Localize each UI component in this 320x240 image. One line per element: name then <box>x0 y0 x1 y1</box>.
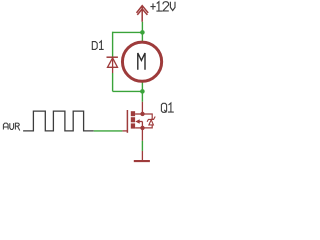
wire AVR to gate <box>94 130 123 132</box>
wire motor bottom to junction <box>141 82 143 91</box>
label AVR <box>3 123 19 130</box>
wire junction to Q1 drain <box>141 91 143 101</box>
mosfet Q1 source horizontal <box>135 127 142 129</box>
wire horizontal to bottom junction <box>113 90 143 92</box>
label Q1 <box>161 103 173 113</box>
mosfet Q1 body diode triangle <box>149 120 154 125</box>
motor letter M <box>138 53 145 70</box>
mosfet Q1 internal dot source <box>140 126 144 130</box>
wire junction to motor top <box>141 32 143 43</box>
wire source to ground <box>141 141 143 151</box>
junction dot top <box>140 30 145 35</box>
mosfet Q1 gate lead <box>122 130 128 132</box>
ground bar <box>134 160 150 162</box>
junction dot bottom <box>140 89 145 94</box>
mosfet Q1 body diode top lead <box>142 114 152 119</box>
diode D1 triangle <box>108 58 118 67</box>
label D1 <box>92 41 103 50</box>
mosfet Q1 channel segment top <box>131 111 135 116</box>
wire D1 anode down <box>112 73 114 91</box>
supply symbol +12V arrow <box>137 6 149 22</box>
wire horizontal to diode branch <box>113 31 143 33</box>
mosfet Q1 channel segment middle <box>131 117 135 122</box>
wire down to D1 cathode <box>112 32 114 57</box>
ground pin <box>141 151 143 160</box>
mosfet Q1 drain pin <box>141 102 143 114</box>
mosfet Q1 body diode zener bar <box>147 117 155 122</box>
mosfet Q1 channel segment bottom <box>131 123 135 128</box>
motor M1 circle <box>122 42 161 81</box>
mosfet Q1 body diode bottom lead <box>142 125 152 128</box>
waveform PWM <box>23 111 94 131</box>
mosfet Q1 bulk arrow <box>135 119 139 124</box>
mosfet Q1 internal dot drain <box>140 112 144 116</box>
mosfet Q1 source vertical <box>141 122 143 141</box>
diode D1 cathode bar <box>107 56 118 58</box>
wire from +12V to junction <box>141 22 143 33</box>
diode D1 pin line <box>112 57 114 73</box>
label +12V <box>150 2 175 11</box>
mosfet Q1 gate bar <box>126 110 128 133</box>
mosfet Q1 drain horizontal <box>135 113 142 115</box>
mosfet Q1 bulk line <box>139 121 142 123</box>
